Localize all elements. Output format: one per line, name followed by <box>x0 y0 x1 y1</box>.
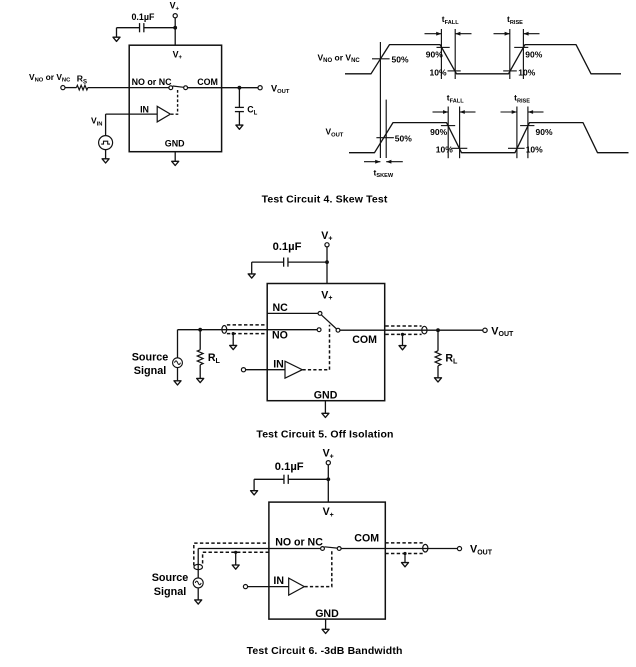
node skew reference line 2 <box>385 100 387 158</box>
switch S2 contact NC <box>318 312 322 316</box>
wire ground to C3 <box>254 478 284 480</box>
wire ground to C2 <box>252 261 284 263</box>
waveform VOUT trace <box>349 123 629 153</box>
terminal VNO/VNC input <box>61 86 65 90</box>
switch S3 contact NO/NC <box>321 547 325 551</box>
buffer amplifier A3 (U3 driver) <box>289 578 305 595</box>
ground GND pin (U1) <box>174 152 176 162</box>
svg-text:VOUT: VOUT <box>271 83 290 95</box>
svg-text:V+: V+ <box>321 289 332 302</box>
resistor RL2 <box>435 351 441 366</box>
capacitor CL load <box>235 106 244 108</box>
svg-text:NC: NC <box>273 302 289 314</box>
svg-text:COM: COM <box>354 533 379 545</box>
svg-text:COM: COM <box>197 77 218 87</box>
wire COM to VOUT <box>188 87 259 89</box>
resistor RS <box>76 85 87 90</box>
wire IN terminal to buffer (U3) <box>248 586 289 588</box>
wire source riser (circuit 5) <box>177 330 179 358</box>
svg-text:NO or NC: NO or NC <box>275 537 323 549</box>
ground source V3 <box>197 589 199 600</box>
ground bypass C1 <box>116 28 118 38</box>
wire RS to switch NO/NC contact <box>88 87 169 89</box>
junction coax shield left / ground (U3) <box>234 551 237 554</box>
node 50% tick (bottom wave) <box>376 137 394 139</box>
svg-text:0.1µF: 0.1µF <box>273 241 302 253</box>
svg-text:IN: IN <box>140 104 149 114</box>
capacitor C1 0.1uF bypass <box>139 23 141 32</box>
svg-text:RL: RL <box>445 353 458 366</box>
svg-text:90%: 90% <box>426 50 443 60</box>
svg-text:VNO or VNC: VNO or VNC <box>29 72 71 84</box>
buffer amplifier A1 (U1 driver) <box>157 106 170 122</box>
wire C2 to V+ junction <box>288 261 327 263</box>
coax shield left upper (U3) <box>194 543 269 565</box>
svg-text:Source: Source <box>132 352 169 364</box>
coax shield left (U2) <box>227 324 267 326</box>
svg-text:0.1µF: 0.1µF <box>275 461 304 473</box>
svg-text:RL: RL <box>208 352 221 365</box>
svg-text:VOUT: VOUT <box>326 127 344 139</box>
junction NO wire / RL1 <box>198 328 202 332</box>
ground bypass C3 <box>253 479 255 490</box>
svg-text:VIN: VIN <box>91 116 102 128</box>
op-amp U2 switch box (Test Circuit 5) <box>267 284 385 401</box>
svg-text:tRISE: tRISE <box>507 14 523 26</box>
wire COM to VOUT (circuit 6) <box>341 548 457 550</box>
ground source V2 <box>177 368 179 381</box>
svg-text:GND: GND <box>314 389 338 401</box>
svg-text:IN: IN <box>273 575 284 587</box>
junction COM wire / RL2 <box>436 328 440 332</box>
svg-text:Test Circuit 4. Skew Test: Test Circuit 4. Skew Test <box>262 193 388 205</box>
svg-text:tRISE: tRISE <box>514 93 530 105</box>
ground coax shield right (U3) <box>404 554 406 563</box>
svg-text:GND: GND <box>165 139 185 149</box>
wire C3 to V+ junction <box>288 478 328 480</box>
node 10% tick fall (top wave) <box>448 70 461 72</box>
coax shield left lower (U3) <box>203 552 269 563</box>
svg-text:tFALL: tFALL <box>447 93 464 105</box>
svg-text:IN: IN <box>273 358 284 370</box>
coax shield right (U2) <box>385 325 421 327</box>
junction coax shield right / ground <box>401 333 404 336</box>
svg-text:V+: V+ <box>173 49 183 61</box>
ground bypass C2 <box>251 262 253 274</box>
node skew reference line 1 <box>379 42 381 158</box>
ground RL2 <box>437 366 439 378</box>
terminal VOUT (circuit 4) <box>258 86 262 90</box>
switch S2 pole contact <box>336 328 340 332</box>
op-amp U3 switch box (Test Circuit 6) <box>269 502 385 619</box>
svg-text:VOUT: VOUT <box>491 325 514 338</box>
ground GND pin (U3) <box>325 619 327 629</box>
junction COM / CL <box>238 86 242 90</box>
ground coax shield right (U2) <box>402 334 404 345</box>
switch S3 bar (closed) <box>324 547 337 548</box>
svg-text:GND: GND <box>315 608 339 620</box>
terminal VOUT (circuit 6) <box>457 547 461 551</box>
node 90% tick rise (top wave) <box>514 46 528 48</box>
wire VIN source riser <box>105 114 107 136</box>
junction V+ / C1 <box>173 26 177 30</box>
junction V+ / C3 <box>326 477 330 481</box>
wire source riser (circuit 6) <box>197 549 199 578</box>
wire input terminal to RS <box>65 87 76 89</box>
wire V+ terminal to box (circuit 6) <box>327 465 329 502</box>
terminal IN (circuit 6) <box>243 585 247 589</box>
ground CL <box>238 112 240 125</box>
svg-text:VOUT: VOUT <box>470 544 493 557</box>
junction coax shield right / ground (U3) <box>403 552 406 555</box>
node tFALL arrows (top wave) <box>425 33 442 35</box>
capacitor C2 0.1uF bypass <box>283 258 285 267</box>
svg-text:CL: CL <box>247 105 257 117</box>
wire COM to VOUT (circuit 5) <box>340 329 483 331</box>
ground coax shield left (U2) <box>232 334 234 346</box>
svg-text:Signal: Signal <box>134 365 166 377</box>
svg-text:COM: COM <box>352 334 377 346</box>
source V1 pulse generator VIN <box>99 136 113 150</box>
coax connector right (U3) <box>423 544 428 552</box>
svg-text:NO: NO <box>272 330 288 342</box>
wire junction to RL1 <box>199 330 201 350</box>
wire NO input <box>178 329 318 331</box>
ground RL1 <box>199 365 201 379</box>
node 10% tick rise (bottom wave) <box>508 147 525 149</box>
buffer amplifier A2 (U2 driver) <box>285 361 302 378</box>
junction coax shield left / ground <box>232 332 235 335</box>
switch S2 contact NO <box>317 328 321 332</box>
switch S1 contact NO/NC <box>169 86 173 90</box>
coax connector left (U3) <box>194 564 203 569</box>
coax shield right (U3) <box>385 542 422 544</box>
wire junction to RL2 <box>437 330 439 351</box>
wire V+ terminal to box (circuit 5) <box>326 247 328 284</box>
coax connector left (U2) <box>222 326 227 334</box>
svg-text:Test Circuit 6. -3dB Bandwidth: Test Circuit 6. -3dB Bandwidth <box>247 645 403 657</box>
node tRISE arrows (bottom wave) <box>501 111 517 113</box>
wire V+ terminal to box <box>174 18 176 45</box>
ground GND pin (U2) <box>324 401 326 414</box>
wire COM junction to CL <box>238 89 240 107</box>
source V2 signal generator <box>173 358 183 368</box>
svg-text:50%: 50% <box>392 55 409 65</box>
node 90% tick rise (bottom wave) <box>520 125 534 127</box>
wire dashed switch control to buffer (U2) <box>303 325 330 370</box>
node tFALL marker lines (bottom wave) <box>447 107 449 159</box>
resistor RL1 <box>197 350 203 365</box>
wire C1 to V+ junction <box>144 27 175 29</box>
svg-text:10%: 10% <box>526 145 543 155</box>
svg-text:NO or NC: NO or NC <box>132 77 173 87</box>
node 90% tick fall (top wave) <box>437 46 450 48</box>
wire dashed switch control to buffer (U3) <box>305 551 332 587</box>
svg-text:V+: V+ <box>323 448 334 461</box>
svg-text:RS: RS <box>77 74 87 86</box>
node 10% tick rise (top wave) <box>503 70 517 72</box>
wire VIN to IN buffer <box>106 113 158 115</box>
op-amp U1 switch box (Test Circuit 4) <box>129 45 221 152</box>
svg-text:Test Circuit 5. Off Isolation: Test Circuit 5. Off Isolation <box>256 429 393 441</box>
node tRISE marker lines (top wave) <box>509 29 511 79</box>
node 90% tick fall (bottom wave) <box>441 125 455 127</box>
terminal VOUT (circuit 5) <box>483 328 487 332</box>
svg-text:tFALL: tFALL <box>442 14 459 26</box>
node 10% tick fall (bottom wave) <box>451 147 468 149</box>
svg-text:Source: Source <box>152 572 189 584</box>
node tFALL arrows (bottom wave) <box>433 111 449 113</box>
wire dashed switch control to buffer <box>171 89 178 114</box>
svg-text:V+: V+ <box>323 506 334 519</box>
wire IN terminal to buffer (U2) <box>246 369 285 371</box>
capacitor C3 0.1uF bypass <box>283 475 285 484</box>
svg-text:90%: 90% <box>525 50 542 60</box>
ground VIN source <box>105 150 107 159</box>
svg-text:V+: V+ <box>170 1 180 13</box>
svg-text:0.1µF: 0.1µF <box>132 12 155 22</box>
ground coax shield left (U3) <box>235 552 237 565</box>
svg-text:10%: 10% <box>429 67 446 77</box>
svg-text:90%: 90% <box>430 127 447 137</box>
svg-text:10%: 10% <box>436 145 453 155</box>
svg-text:V+: V+ <box>321 230 332 243</box>
node tRISE marker lines (bottom wave) <box>516 107 518 159</box>
svg-text:tSKEW: tSKEW <box>374 167 394 179</box>
svg-text:90%: 90% <box>536 127 553 137</box>
node tSKEW arrows <box>364 161 380 163</box>
terminal IN (circuit 5) <box>241 368 245 372</box>
source V3 signal generator <box>193 578 203 588</box>
switch S2 bar (closed to NC) <box>321 315 336 329</box>
node 50% tick (top wave) <box>372 58 390 60</box>
switch S1 pole contact <box>184 86 188 90</box>
svg-text:Signal: Signal <box>154 586 186 598</box>
wire NC stub <box>267 312 318 314</box>
node tFALL marker lines (top wave) <box>440 29 442 79</box>
coax connector right (U2) <box>422 326 427 334</box>
switch S1 bar (closed) <box>173 86 184 87</box>
wire ground to C1 <box>117 27 140 29</box>
svg-text:50%: 50% <box>395 133 412 143</box>
svg-text:10%: 10% <box>518 67 535 77</box>
switch S3 pole contact <box>337 547 341 551</box>
svg-text:VNO or VNC: VNO or VNC <box>318 52 361 64</box>
wire input to switch (circuit 6) <box>198 548 320 550</box>
waveform VNO/VNC trace <box>345 45 621 74</box>
junction V+ / C2 <box>325 260 329 264</box>
node tRISE arrows (top wave) <box>494 33 510 35</box>
